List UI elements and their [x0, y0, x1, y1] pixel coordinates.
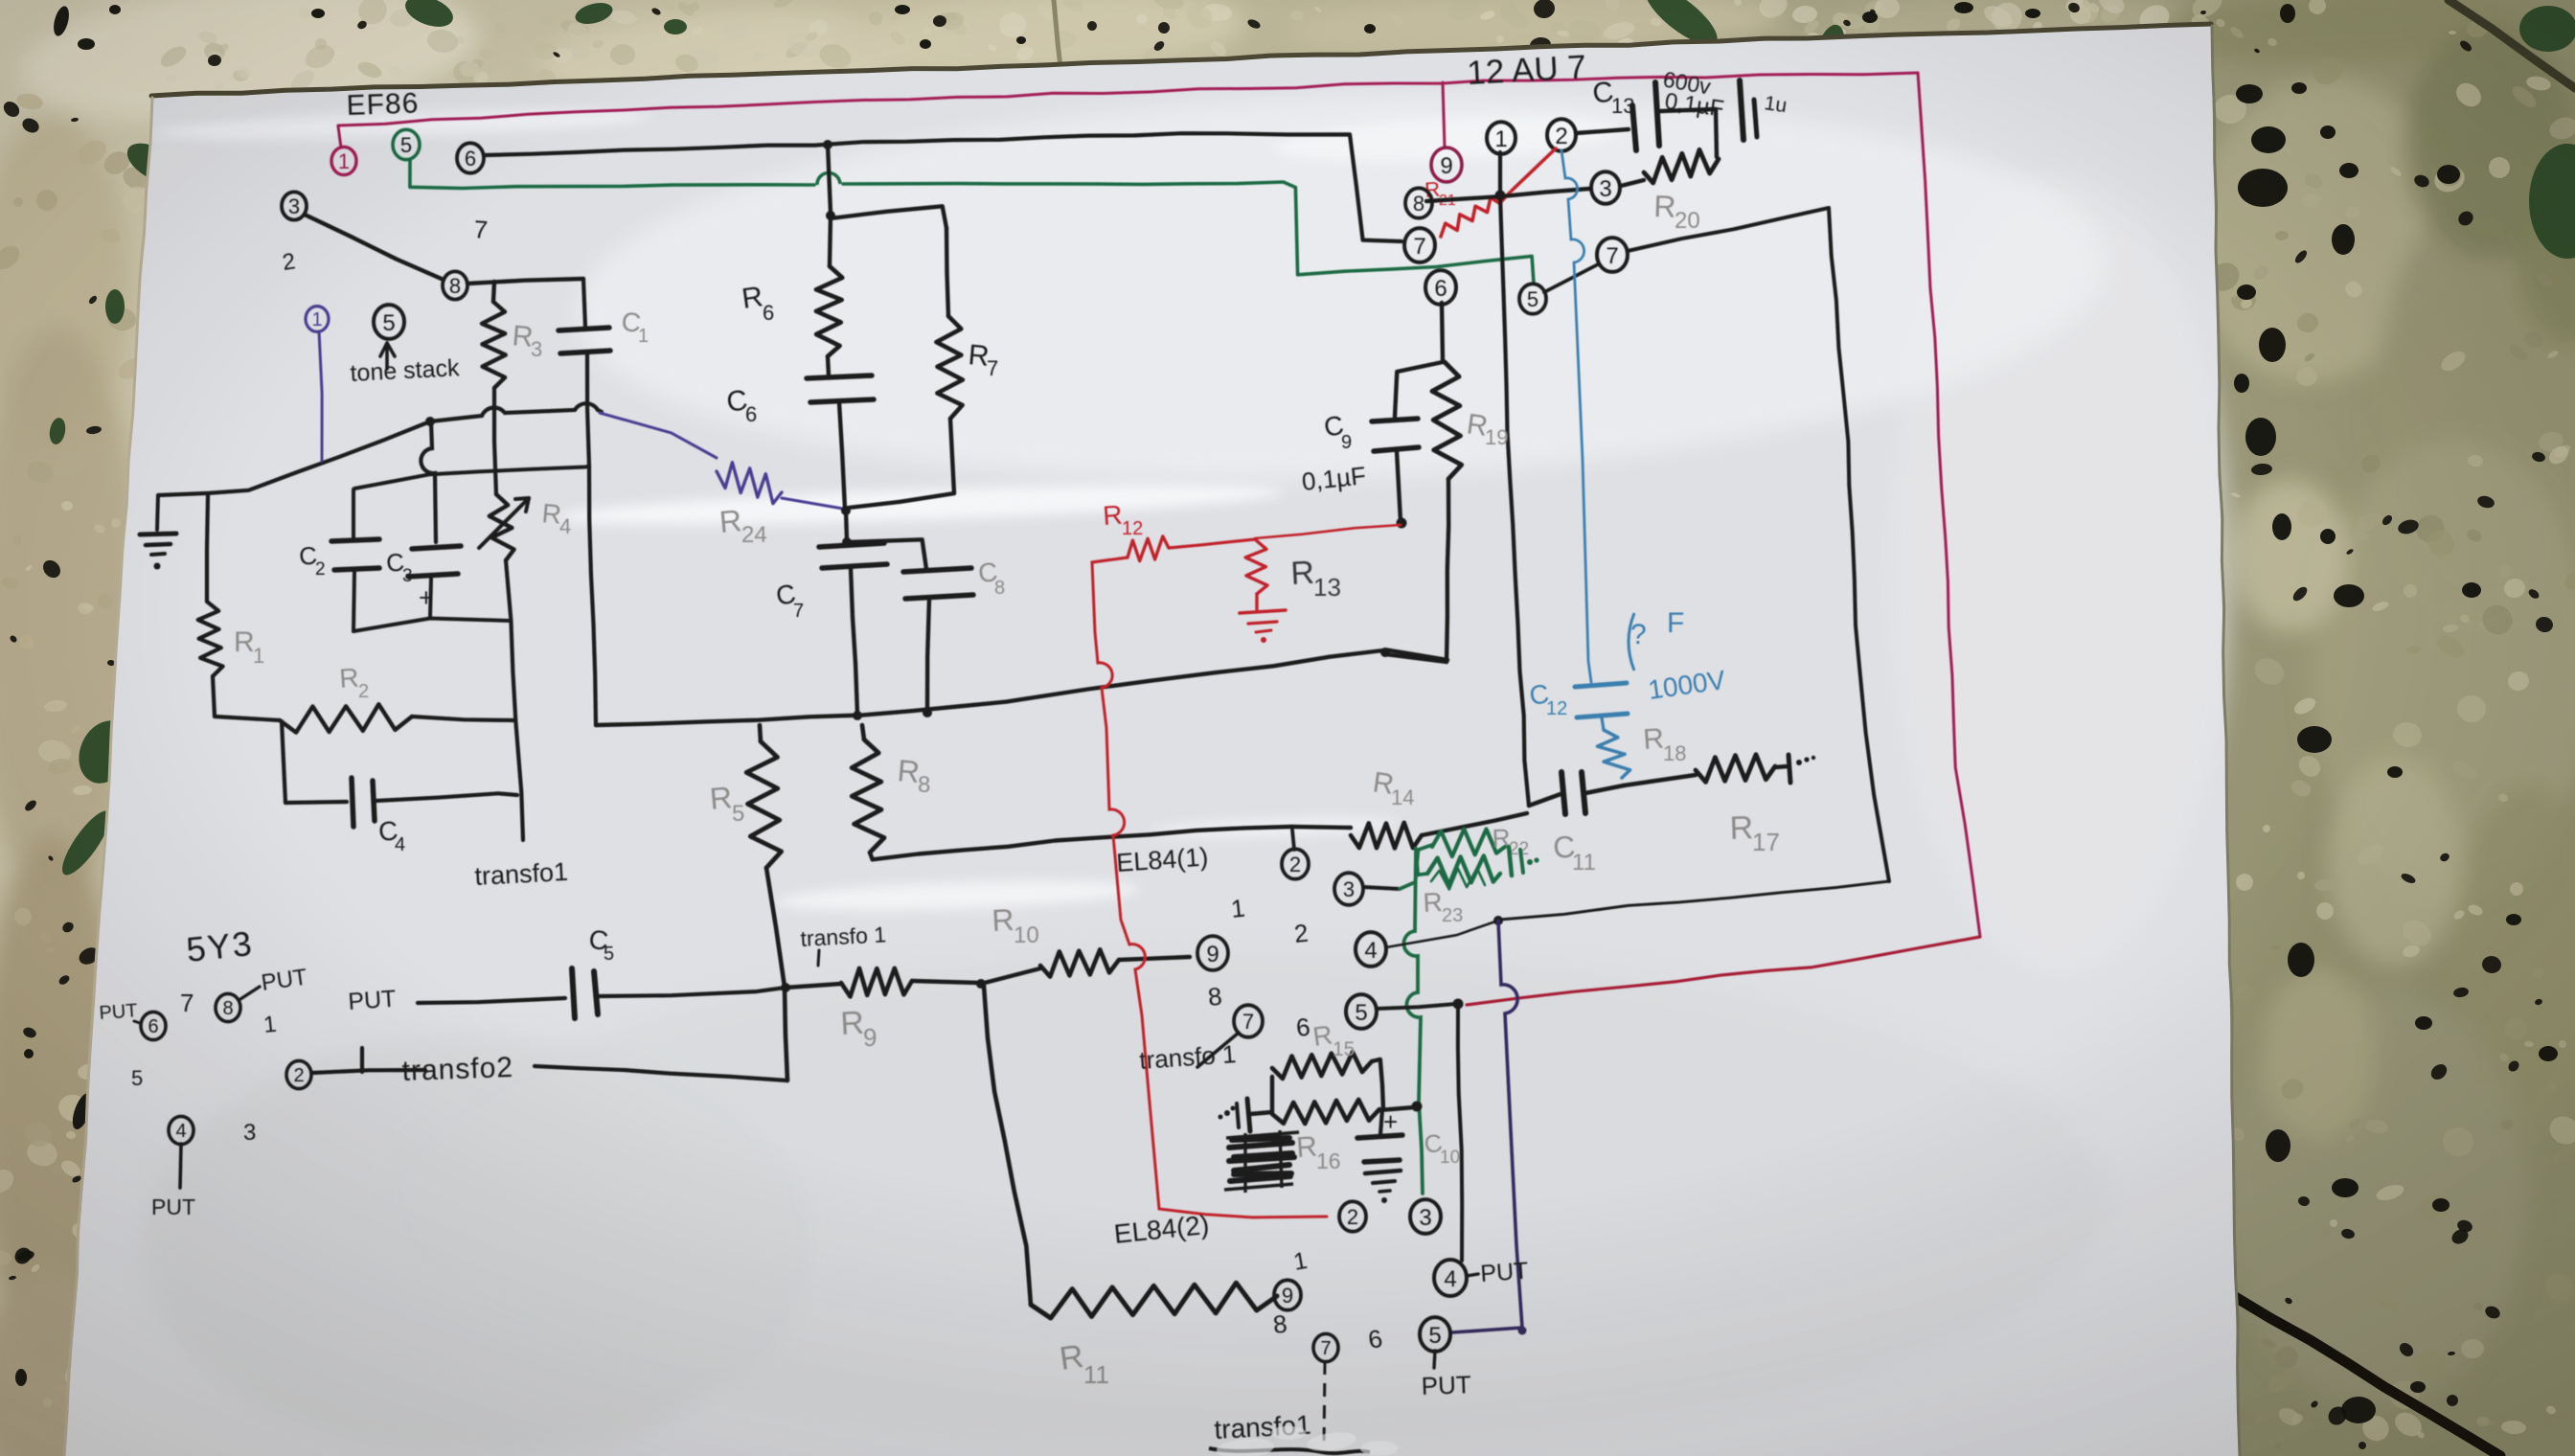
EF86 pin 3	[282, 192, 307, 219]
12AU7 pin 7 (right)	[1597, 238, 1628, 272]
ground R13 (red)	[1240, 610, 1286, 613]
wire node A to C3 with hop over wire B	[421, 422, 436, 542]
glare streaks	[153, 104, 1620, 916]
resistor R16	[1272, 1100, 1379, 1124]
12AU7 pin 5	[1519, 284, 1546, 313]
capacitor 1u	[1740, 80, 1743, 140]
capacitor C7	[819, 543, 884, 547]
5Y3 pin 2 / transfo2 wire	[286, 1060, 311, 1088]
resistor R18 (blue)	[1602, 717, 1604, 730]
floor chips	[401, 0, 457, 33]
floor grooves	[2449, 0, 2575, 88]
capacitor C9	[1372, 419, 1418, 421]
wire node A right with hops over R3 and C1	[430, 403, 602, 421]
resistor R19	[1432, 362, 1462, 479]
red wire C9 node to R12/R13	[1255, 525, 1401, 538]
wire pin5 to pin7b diagonal	[1544, 264, 1598, 292]
wire R8 to EL84(1) grid	[870, 827, 1291, 859]
wire green heater rail	[410, 159, 814, 189]
resistor R22 (green)	[1400, 845, 1432, 889]
wire B+ magenta top rail	[338, 73, 1918, 125]
wire EF86 pin6 to 12AU7 pin7	[485, 133, 1401, 241]
wire pin8-pin3 diagonal	[1426, 189, 1589, 201]
wire pin6 branch	[1442, 303, 1443, 360]
resistor R8	[862, 725, 864, 739]
capacitor C13	[1576, 129, 1629, 133]
wire C1 bottom to main bus	[589, 466, 596, 725]
wire B	[354, 466, 588, 489]
resistor R13 (red)	[1245, 539, 1267, 594]
5Y3 pin 8	[216, 993, 240, 1021]
junction C7 top	[841, 506, 851, 515]
long plate wire down	[1500, 195, 1529, 806]
red plate wire down to EL84(2) pin2	[1092, 562, 1159, 1209]
resistor R23 (green)	[1416, 849, 1427, 875]
12AU7 pin 9 (magenta)	[1443, 82, 1445, 148]
capacitor C11 (green)	[1509, 847, 1512, 876]
capacitor C6	[807, 375, 872, 378]
wire magenta bottom rail to EL84(1) pin5 node	[1467, 937, 1980, 1005]
capacitor C8	[849, 539, 926, 569]
paper edge shadow	[151, 24, 2211, 96]
tone stack pin 5	[374, 305, 404, 339]
5Y3 pin 4	[169, 1116, 194, 1144]
12AU7 pin 7	[1404, 228, 1435, 262]
resistor R24 (violet)	[600, 413, 717, 458]
12AU7 pin 6	[1425, 270, 1456, 305]
12AU7 pin 8	[1405, 188, 1432, 217]
wire magenta right rail down	[1918, 73, 1980, 937]
junction R9/R11	[976, 979, 986, 989]
correction fluid smudges	[1216, 1426, 1399, 1456]
wire node A horizontal	[158, 421, 430, 495]
transformer tap symbol	[1247, 1099, 1250, 1131]
resistor R11	[1031, 1283, 1277, 1318]
ground (input)	[157, 495, 158, 530]
EL84(1) pin 3	[1334, 873, 1363, 905]
capacitor C2	[352, 489, 355, 537]
EL84(2) pin 2	[1339, 1201, 1366, 1231]
EL84(2) pin 3	[1410, 1199, 1441, 1234]
resistor R2	[215, 717, 280, 720]
EL84(2) pin 5	[1420, 1317, 1450, 1352]
EF86 pin 8	[443, 271, 467, 299]
resistor R14	[1291, 827, 1351, 828]
EF86 pin 1 (magenta)	[331, 147, 356, 174]
resistor R6	[830, 216, 831, 266]
wire pin3 to pin8	[305, 215, 444, 280]
tone stack pin 1 (violet)	[306, 307, 329, 332]
green cathode line down to EL84(2) pin3	[1403, 849, 1423, 1194]
resistor R20	[1621, 180, 1644, 186]
wire screen node down to EL84(2) pin5 (violet)	[1452, 921, 1522, 1332]
EL84(1) pin 9	[1197, 936, 1228, 970]
capacitor C12 (blue)	[1575, 683, 1627, 687]
resistor R5	[760, 725, 761, 741]
capacitor C1	[583, 279, 585, 327]
right loop vertical	[1829, 208, 1889, 881]
main B+ distribution bus	[596, 650, 1447, 726]
blue wire pin2 to C12	[1561, 150, 1591, 682]
12AU7 pin 2	[1547, 119, 1576, 151]
resistor R10	[981, 968, 1040, 984]
EL84(2) pin 4	[1434, 1260, 1467, 1296]
junction node A	[425, 417, 435, 426]
crossed-out note (scribble)	[1229, 1138, 1294, 1181]
junction	[826, 211, 835, 220]
resistor R21 (red) + wire to pin2	[1512, 148, 1556, 191]
coupling capacitor C14	[1529, 794, 1561, 806]
EF86 pin 5 (green)	[393, 129, 420, 159]
EL84(1) pin 2	[1292, 830, 1294, 850]
12AU7 pin 1	[1487, 122, 1515, 154]
resistor R1	[207, 495, 208, 602]
resistor R12 (red)	[1169, 539, 1255, 548]
resistor R17	[1624, 775, 1696, 785]
plate node junction	[1495, 191, 1506, 201]
resistor R7	[831, 206, 946, 228]
12AU7 pin 3	[1591, 171, 1620, 204]
junction C5/R9/R5	[781, 983, 790, 992]
resistor R9	[786, 984, 841, 988]
potentiometer R4	[490, 494, 514, 560]
capacitor C5	[572, 968, 575, 1018]
capacitor C3	[412, 546, 461, 549]
EL84(2) pin 9	[1274, 1280, 1301, 1309]
wire drop from pin6 rail	[828, 144, 831, 213]
wire pin5 node down to EL84(2) pin4	[1458, 1004, 1462, 1261]
screen wire pin4	[1386, 921, 1498, 947]
EF86 pin 6	[457, 143, 484, 172]
capacitor C4	[282, 721, 285, 803]
resistor R15	[1250, 1112, 1272, 1114]
resistor R3	[467, 279, 583, 284]
wire C2/C3 bottom bus	[353, 619, 510, 632]
wire to right loop	[1628, 208, 1829, 251]
ground C10	[1365, 1171, 1401, 1173]
loop bottom / screen wire	[1500, 881, 1889, 920]
